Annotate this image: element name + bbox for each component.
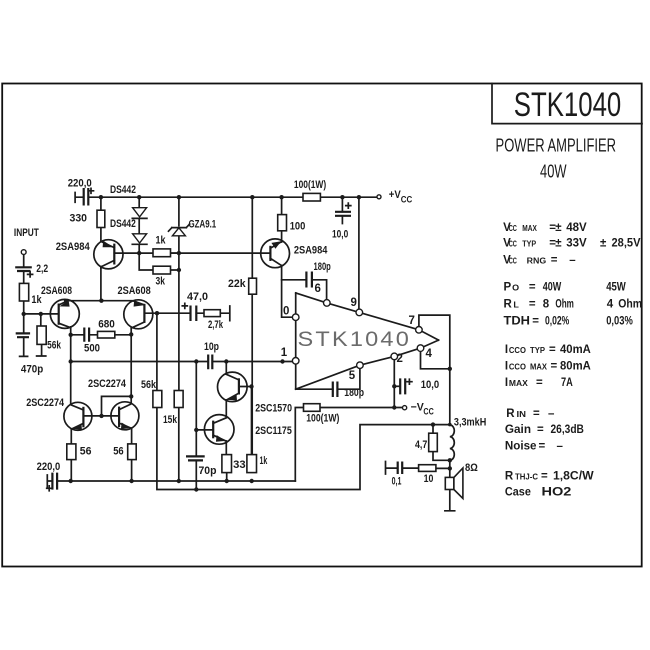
svg-text:470p: 470p <box>21 364 44 376</box>
svg-text:180p: 180p <box>314 261 331 273</box>
svg-text:=: = <box>532 316 539 328</box>
svg-text:=: = <box>529 299 536 311</box>
svg-text:=: = <box>536 377 543 389</box>
svg-text:40W: 40W <box>540 161 567 182</box>
svg-text:8Ω: 8Ω <box>465 462 478 474</box>
svg-text:4: 4 <box>607 299 614 311</box>
svg-text:±: ± <box>600 238 607 250</box>
svg-text:O: O <box>512 284 519 293</box>
svg-text:=: = <box>539 441 546 453</box>
svg-text:=: = <box>551 255 558 267</box>
svg-text:180p: 180p <box>344 387 364 399</box>
svg-text:I: I <box>505 344 508 356</box>
svg-text:CC: CC <box>509 240 517 249</box>
svg-text:−V: −V <box>411 401 425 413</box>
svg-text:2SA608: 2SA608 <box>118 285 151 297</box>
svg-text:40W: 40W <box>543 282 562 294</box>
svg-text:I: I <box>505 361 508 373</box>
svg-text:R: R <box>505 471 514 483</box>
svg-text:±: ± <box>555 222 562 234</box>
svg-text:6: 6 <box>315 283 321 295</box>
svg-text:Gain: Gain <box>505 424 531 436</box>
svg-text:2SA608: 2SA608 <box>41 285 72 297</box>
svg-text:7: 7 <box>409 315 415 327</box>
svg-text:±: ± <box>555 238 562 250</box>
svg-text:STK1040: STK1040 <box>514 86 622 124</box>
svg-text:56k: 56k <box>141 379 157 391</box>
svg-text:=: = <box>551 361 558 373</box>
svg-text:48V: 48V <box>566 222 587 234</box>
svg-text:15k: 15k <box>163 414 178 426</box>
svg-text:DS442: DS442 <box>110 218 136 230</box>
svg-text:2SC1175: 2SC1175 <box>255 425 292 437</box>
svg-text:56: 56 <box>113 445 124 457</box>
svg-text:–: – <box>548 408 555 420</box>
svg-text:MAX: MAX <box>530 363 548 372</box>
svg-text:0,02%: 0,02% <box>545 316 569 328</box>
svg-text:45W: 45W <box>606 282 626 294</box>
svg-text:80mA: 80mA <box>560 361 591 373</box>
svg-text:2: 2 <box>397 353 403 365</box>
svg-text:2,2: 2,2 <box>36 263 48 275</box>
svg-text:+V: +V <box>389 189 402 201</box>
svg-text:40mA: 40mA <box>560 344 591 356</box>
svg-text:680: 680 <box>98 319 115 331</box>
svg-text:INPUT: INPUT <box>14 227 39 239</box>
svg-text:Noise: Noise <box>505 441 537 453</box>
svg-text:P: P <box>504 282 512 294</box>
svg-text:33: 33 <box>233 459 246 471</box>
svg-text:7A: 7A <box>561 377 573 389</box>
svg-text:10p: 10p <box>204 341 219 353</box>
svg-text:Case: Case <box>505 487 531 499</box>
svg-text:10,0: 10,0 <box>332 229 348 241</box>
svg-text:CC: CC <box>423 406 433 417</box>
svg-text:=: = <box>537 424 544 436</box>
svg-text:TYP: TYP <box>530 346 546 355</box>
svg-text:2SC2274: 2SC2274 <box>88 378 127 390</box>
svg-text:GZA9.1: GZA9.1 <box>189 218 217 230</box>
svg-text:IN: IN <box>517 410 527 419</box>
svg-text:28,5V: 28,5V <box>612 238 641 250</box>
svg-text:TDH: TDH <box>504 316 531 328</box>
svg-text:POWER AMPLIFIER: POWER AMPLIFIER <box>496 134 617 155</box>
svg-text:47,0: 47,0 <box>187 291 208 303</box>
svg-text:1k: 1k <box>260 455 268 467</box>
svg-text:=: = <box>541 471 548 483</box>
svg-text:L: L <box>513 301 519 310</box>
svg-text:1,8C/W: 1,8C/W <box>553 471 594 483</box>
svg-text:4: 4 <box>426 348 433 360</box>
svg-text:CC: CC <box>509 224 517 233</box>
svg-text:=: = <box>549 344 556 356</box>
svg-text:3,3mkH: 3,3mkH <box>454 417 486 429</box>
svg-text:STK1040: STK1040 <box>298 327 412 351</box>
svg-text:0: 0 <box>283 306 289 318</box>
svg-text:Ohm: Ohm <box>555 299 574 311</box>
svg-text:0,03%: 0,03% <box>606 316 633 328</box>
svg-text:=: = <box>533 408 540 420</box>
svg-text:0,1: 0,1 <box>392 476 402 488</box>
svg-text:5: 5 <box>349 370 356 382</box>
svg-text:R: R <box>504 299 513 311</box>
svg-text:=: = <box>529 282 536 294</box>
svg-text:R: R <box>506 408 515 420</box>
svg-text:100(1W): 100(1W) <box>306 412 339 424</box>
svg-text:26,3dB: 26,3dB <box>551 424 584 436</box>
svg-text:HO2: HO2 <box>542 487 572 499</box>
svg-text:56: 56 <box>80 445 92 457</box>
svg-text:9: 9 <box>351 297 357 309</box>
svg-text:2SC1570: 2SC1570 <box>255 403 292 415</box>
svg-text:220,0: 220,0 <box>37 461 61 473</box>
svg-text:CCO: CCO <box>509 346 526 355</box>
svg-text:33V: 33V <box>566 238 587 250</box>
svg-text:2SA984: 2SA984 <box>56 241 91 253</box>
svg-text:1k: 1k <box>156 235 167 247</box>
svg-text:10,0: 10,0 <box>421 379 440 391</box>
svg-text:TYP: TYP <box>522 240 536 249</box>
svg-text:–: – <box>557 441 564 453</box>
svg-text:330: 330 <box>70 212 88 224</box>
svg-text:THJ-C: THJ-C <box>515 473 538 482</box>
svg-text:70p: 70p <box>199 465 217 477</box>
svg-text:2SC2274: 2SC2274 <box>26 397 65 409</box>
svg-text:MAX: MAX <box>522 224 537 233</box>
svg-text:CC: CC <box>401 194 413 205</box>
svg-text:8: 8 <box>543 299 550 311</box>
svg-text:100: 100 <box>290 221 306 233</box>
svg-text:Ohm: Ohm <box>618 299 642 311</box>
svg-text:CCO: CCO <box>509 363 526 372</box>
svg-text:100(1W): 100(1W) <box>294 179 327 191</box>
svg-text:1: 1 <box>281 347 288 359</box>
svg-text:2SA984: 2SA984 <box>294 245 328 257</box>
svg-text:22k: 22k <box>228 278 246 290</box>
svg-text:3k: 3k <box>156 276 166 288</box>
svg-text:–: – <box>569 255 576 267</box>
svg-text:10: 10 <box>424 473 434 485</box>
svg-text:MAX: MAX <box>509 379 529 388</box>
svg-text:2,7k: 2,7k <box>208 319 224 331</box>
svg-text:I: I <box>505 377 508 389</box>
svg-text:500: 500 <box>84 343 100 355</box>
svg-text:4,7: 4,7 <box>415 439 427 451</box>
svg-text:RNG: RNG <box>527 257 547 266</box>
svg-text:220,0: 220,0 <box>68 177 92 189</box>
svg-text:DS442: DS442 <box>110 184 136 196</box>
svg-text:CC: CC <box>509 257 517 266</box>
svg-text:56k: 56k <box>47 340 62 352</box>
